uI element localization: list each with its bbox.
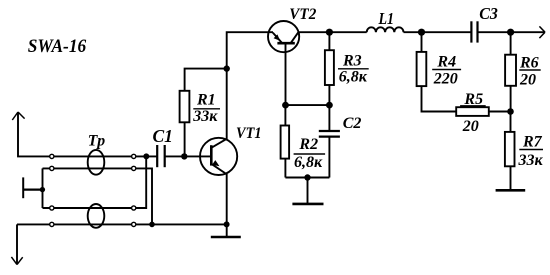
svg-text:C2: C2 — [343, 115, 362, 132]
svg-text:6,8к: 6,8к — [339, 68, 368, 85]
svg-text:20: 20 — [462, 118, 479, 135]
svg-text:20: 20 — [519, 71, 536, 88]
svg-text:C1: C1 — [153, 126, 173, 146]
svg-text:Tp: Tp — [88, 133, 106, 150]
svg-text:VT1: VT1 — [236, 125, 262, 142]
svg-text:R7: R7 — [522, 134, 543, 151]
svg-text:R2: R2 — [298, 136, 318, 153]
svg-text:33к: 33к — [192, 108, 218, 125]
svg-text:33к: 33к — [518, 152, 544, 169]
svg-text:R3: R3 — [342, 52, 362, 69]
svg-text:SWA-16: SWA-16 — [28, 36, 87, 57]
svg-text:R5: R5 — [463, 91, 483, 108]
svg-text:R6: R6 — [519, 54, 539, 71]
svg-text:C3: C3 — [479, 4, 498, 23]
svg-text:R1: R1 — [196, 92, 216, 109]
svg-text:VT2: VT2 — [289, 6, 316, 23]
svg-text:6,8к: 6,8к — [294, 154, 323, 171]
svg-text:220: 220 — [433, 70, 458, 87]
svg-text:L1: L1 — [378, 9, 394, 28]
svg-text:R4: R4 — [436, 53, 456, 70]
